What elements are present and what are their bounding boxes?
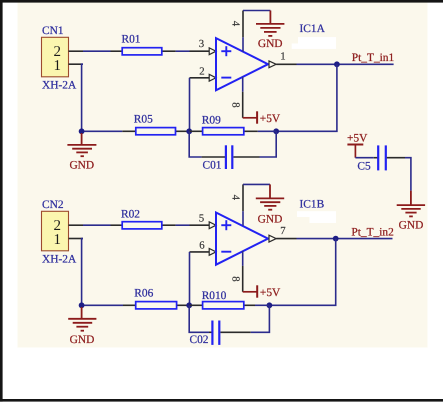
window border bottom [0,399,443,402]
junction node B1 [273,128,279,134]
svg-text:1: 1 [280,51,285,63]
wire CN2 pin1 down to node A2 [82,239,83,306]
svg-text:Pt_T_in1: Pt_T_in1 [352,52,395,64]
svg-text:C5: C5 [357,160,371,172]
svg-text:R06: R06 [134,288,153,300]
resistor R06 leads [123,304,189,306]
op-amp IC1A triangle [216,38,268,90]
svg-text:6: 6 [199,240,205,252]
wire feedback channel 1 [276,64,337,131]
capacitor C02 right lead [221,331,251,333]
op-amp IC1B triangle [216,213,268,265]
resistor R02 body [122,222,162,229]
capacitor C01 plates [226,145,232,169]
wire output to net label [297,63,394,65]
capacitor C5 left lead [374,157,378,159]
junction node B2 [267,302,273,308]
wire CN2 pin2 to R02 [83,224,111,226]
CN2 pin 2 stub [69,224,84,226]
svg-text:IC1A: IC1A [300,23,326,35]
junction output node 2 [333,236,339,242]
wire pin6 down to node A2 [189,252,191,305]
wire C02 up to node B2 [251,305,270,332]
op-amp IC1A pin 3 [190,50,210,52]
wire R010 to node B2 [255,304,269,306]
resistor R010 leads [189,304,255,306]
ground at node A1 [67,133,96,172]
svg-text:1: 1 [54,232,62,248]
svg-text:8: 8 [229,276,241,281]
wire node A2 down to C02 [189,305,209,332]
svg-text:GND: GND [69,160,94,172]
wire R01 to pin3 [176,50,190,52]
wire output2 to net label [297,238,393,240]
resistor R05 leads [122,130,189,132]
svg-text:2: 2 [199,66,204,78]
svg-text:GND: GND [399,219,424,231]
wire CN1 pin1 down to ground node A1 [82,64,83,131]
wire feedback channel 2 [269,239,335,306]
op-amp IC1B pin 4 [242,184,244,225]
op-amp IC1B pin 5 [190,224,210,226]
op-amp IC1A minus sign [221,77,231,79]
junction node A1 [186,128,192,134]
schematic sheet background [18,3,428,348]
svg-text:8: 8 [229,102,241,107]
capacitor C02 plates [212,321,219,345]
wire pin4 to GND channel2 [243,183,270,185]
svg-text:CN2: CN2 [42,199,64,211]
wire C5 to ground [405,158,411,191]
svg-text:R09: R09 [202,115,221,127]
window border top [0,0,443,3]
svg-text:C02: C02 [190,334,209,346]
svg-text:GND: GND [258,38,283,50]
junction node A2 [186,302,192,308]
svg-text:R02: R02 [121,208,140,220]
svg-text:Pt_T_in2: Pt_T_in2 [351,226,394,238]
svg-text:CN1: CN1 [42,25,64,37]
junction output node 1 [334,61,340,67]
op-amp IC1A plus sign [221,46,231,56]
ground GND at IC1A pin4 [256,11,284,36]
svg-text:R010: R010 [202,290,227,302]
CN2 pin 1 stub [69,238,84,240]
op-amp IC1B plus sign [221,220,231,230]
op-amp IC1B pin 8 [242,251,244,292]
svg-text:C01: C01 [203,159,222,171]
connector CN2 body [42,211,69,251]
resistor R06 body [136,302,177,309]
wire C01 up to node B1 [260,131,277,157]
wire node A1 down to C01 [189,131,201,157]
svg-text:+5V: +5V [347,133,368,145]
svg-text:7: 7 [280,225,286,237]
op-amp IC1B pin 7 output [269,235,276,242]
junction CN2 ground node [79,302,85,308]
wire R09 to node B1 [258,130,276,132]
svg-text:R05: R05 [134,114,153,126]
op-amp IC1A pin 4 [242,11,244,52]
svg-text:IC1B: IC1B [300,198,325,210]
resistor R09 body [203,128,244,135]
ground GND at C5 [397,191,425,232]
power +5V at C5 [347,133,368,158]
svg-text:4: 4 [229,195,241,201]
wire pin4 to GND [243,10,270,12]
op-amp IC1A pin 1 output [269,61,276,68]
svg-text:R01: R01 [122,33,141,45]
svg-text:GND: GND [258,214,283,226]
capacitor C5 right lead [387,157,405,159]
capacitor C01 left lead [202,156,225,158]
wire CN1 pin2 to R01 [83,50,111,52]
CN1 pin 2 stub [69,50,84,52]
svg-text:+5V: +5V [260,113,281,125]
svg-text:GND: GND [70,334,95,346]
window border left [0,0,3,402]
resistor R05 body [136,128,176,135]
connector CN1 body [42,37,69,77]
power +5V at IC1B pin 8 [243,285,281,299]
ground GND at IC1B pin4 [256,184,284,225]
capacitor C5 plates [378,145,386,170]
wire pin2 down to node A1 [189,78,191,132]
svg-text:+5V: +5V [260,287,281,299]
wire node A1 to R05 [82,130,123,132]
op-amp IC1B pin 6 [190,251,210,253]
wire node A2 to R06 [82,304,123,306]
svg-text:XH-2A: XH-2A [42,80,77,92]
op-amp IC1A pin 2 [190,77,210,79]
op-amp IC1B minus sign [221,251,231,253]
resistor R010 body [203,302,244,309]
capacitor C02 left lead [209,331,212,333]
resistor R01 leads [111,50,123,52]
svg-text:3: 3 [199,38,204,50]
wire +5V to C5 [355,157,373,159]
white patch under IC1A [298,37,336,43]
resistor R09 leads [189,130,258,132]
svg-text:XH-2A: XH-2A [42,254,77,266]
resistor R02 leads [111,224,176,226]
resistor R01 body [122,48,162,55]
ground at node A2 [68,307,96,346]
svg-text:1: 1 [54,58,62,74]
wire R02 to pin5 [176,224,190,226]
op-amp IC1A pin 8 [242,77,244,118]
CN1 pin 1 stub [69,63,84,65]
power +5V at IC1A pin 8 [243,111,281,125]
white patch under IC1B [297,211,336,217]
capacitor C01 right lead [234,156,260,158]
svg-text:5: 5 [199,213,204,225]
junction CN1 ground node [79,128,85,134]
svg-text:4: 4 [229,21,241,27]
